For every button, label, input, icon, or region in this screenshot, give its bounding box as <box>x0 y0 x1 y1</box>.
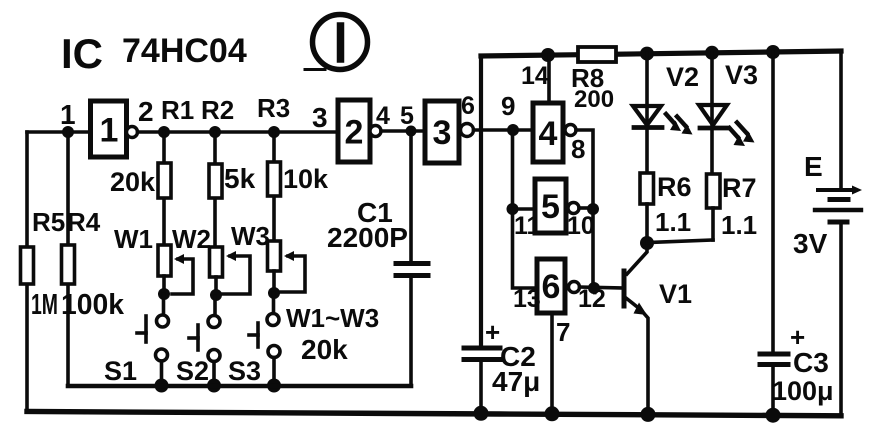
label pin 13 <box>513 285 541 313</box>
svg-text:2: 2 <box>345 114 364 152</box>
bubble output 4 <box>565 125 576 136</box>
resistor R3 body <box>268 132 281 241</box>
node pin1 <box>62 126 74 138</box>
wire bottom rail <box>27 412 841 416</box>
potentiometer W2 <box>210 247 251 294</box>
title IC 74HC04 <box>61 30 247 77</box>
switch S2 <box>189 296 220 386</box>
node base join <box>588 282 600 294</box>
label R7 value 1.1 <box>721 210 757 240</box>
label R3 <box>257 93 290 123</box>
inverter U1d box 4 <box>533 103 563 162</box>
bubble output 3 <box>461 124 474 137</box>
label pin 3 <box>312 102 328 133</box>
node C3 top <box>766 45 780 59</box>
resistor R7 <box>649 174 720 243</box>
svg-text:6: 6 <box>542 268 561 306</box>
svg-text:R1: R1 <box>161 95 194 125</box>
svg-text:S3: S3 <box>228 356 261 386</box>
figure mark (1) <box>305 15 368 70</box>
node V3 top <box>705 46 719 60</box>
node R1 <box>158 126 170 138</box>
node input5 <box>507 203 519 215</box>
node pin14 <box>541 48 555 62</box>
potentiometer W1 <box>158 245 193 294</box>
wire node to box5 input <box>513 207 536 211</box>
label pin 11 <box>514 212 541 240</box>
node 5 <box>406 126 417 137</box>
svg-text:100k: 100k <box>61 289 125 321</box>
label C2 plus <box>485 317 500 347</box>
label 200 <box>574 86 614 113</box>
label R4 <box>67 207 101 237</box>
label C3 plus <box>790 322 805 352</box>
node C2 bottom <box>474 406 489 421</box>
resistor R6 <box>640 173 654 243</box>
label 20k <box>110 167 156 197</box>
inverter U1a box 1 <box>91 101 127 157</box>
bubble output 5 <box>568 203 579 214</box>
svg-text:S2: S2 <box>176 356 209 386</box>
svg-text:1: 1 <box>60 99 76 130</box>
wire base <box>580 287 625 288</box>
inverter U1e box 5 <box>535 179 566 233</box>
node collector <box>640 236 654 250</box>
inverter U1b box 2 <box>338 100 370 162</box>
svg-text:2: 2 <box>138 96 154 127</box>
label pin 2 <box>138 96 154 127</box>
svg-text:R4: R4 <box>67 207 101 237</box>
label R5 <box>32 207 65 237</box>
label R1 <box>161 95 194 125</box>
svg-text:W1: W1 <box>114 224 153 254</box>
label W2 <box>172 224 211 254</box>
label pin 8 <box>571 134 585 164</box>
wire Vcc vertical / capacitor C2 branch <box>479 56 483 346</box>
label pin 10 <box>567 212 595 240</box>
label R7 <box>722 173 757 203</box>
wire inner bus <box>68 384 411 389</box>
label W3 <box>231 221 270 251</box>
label 100u <box>772 376 834 406</box>
svg-text:4: 4 <box>539 115 558 153</box>
node R2 <box>209 126 221 138</box>
node pin7 ground <box>545 406 560 421</box>
svg-text:47μ: 47μ <box>492 366 540 397</box>
label W1~W3 <box>286 303 379 333</box>
label pin 12 <box>578 285 606 313</box>
svg-text:9: 9 <box>501 91 515 121</box>
label 100k <box>61 289 125 321</box>
resistor R4 <box>62 132 75 386</box>
svg-text:200: 200 <box>574 86 614 113</box>
svg-text:8: 8 <box>571 134 585 164</box>
bubble output 1 <box>127 127 138 138</box>
label V2 <box>666 62 699 92</box>
label 5k <box>224 163 256 194</box>
svg-text:4: 4 <box>376 102 390 130</box>
label pin 5 <box>400 102 414 130</box>
svg-text:R3: R3 <box>257 93 290 123</box>
label E <box>804 151 823 182</box>
wire node45 down to base node <box>591 209 595 288</box>
label S1 <box>104 356 137 386</box>
svg-text:11: 11 <box>514 212 541 240</box>
svg-text:2200P: 2200P <box>327 222 408 253</box>
label V1 <box>659 279 692 309</box>
svg-text:1.1: 1.1 <box>655 207 691 237</box>
potentiometer W3 <box>268 241 306 292</box>
svg-text:1.1: 1.1 <box>721 210 757 240</box>
node W2 bottom <box>210 289 222 301</box>
svg-text:IC: IC <box>61 30 103 77</box>
LED V3 arrows <box>730 123 755 147</box>
label W1 <box>114 224 153 254</box>
inverter U1f box 6 <box>537 259 565 313</box>
svg-text:7: 7 <box>556 317 570 347</box>
label pin 14 <box>521 62 549 90</box>
svg-text:S1: S1 <box>104 356 137 386</box>
capacitor C2 <box>464 348 500 413</box>
wire output4 down <box>576 130 593 209</box>
svg-text:E: E <box>804 151 823 182</box>
svg-text:W1~W3: W1~W3 <box>286 303 379 333</box>
battery E <box>815 51 862 416</box>
label C1 <box>357 197 393 228</box>
label pin 1 <box>60 99 76 130</box>
node S1 bottom <box>155 379 169 393</box>
bubble output 6 <box>569 282 580 293</box>
svg-text:R6: R6 <box>657 172 692 202</box>
svg-text:R2: R2 <box>201 95 234 125</box>
svg-text:6: 6 <box>461 92 475 120</box>
resistor R5 <box>21 132 34 412</box>
svg-text:10: 10 <box>567 212 595 240</box>
svg-text:5k: 5k <box>224 163 256 194</box>
wire pin14 to box4 <box>547 55 551 103</box>
svg-text:14: 14 <box>521 62 549 90</box>
resistor R8 <box>578 47 616 62</box>
switch S3 <box>249 293 280 386</box>
svg-text:R5: R5 <box>32 207 65 237</box>
resistor R2 body <box>209 132 222 247</box>
svg-text:10k: 10k <box>283 164 329 194</box>
svg-text:W2: W2 <box>172 224 211 254</box>
node C3 bottom <box>766 408 781 423</box>
bubble output 2 <box>370 126 381 137</box>
resistor R1 body <box>158 132 171 245</box>
svg-text:5: 5 <box>541 188 560 226</box>
LED V3 <box>699 53 728 174</box>
svg-text:3: 3 <box>433 114 452 152</box>
svg-text:V1: V1 <box>659 279 692 309</box>
label R2 <box>201 95 234 125</box>
svg-text:20k: 20k <box>110 167 156 197</box>
svg-text:20k: 20k <box>301 334 348 365</box>
svg-text:74HC04: 74HC04 <box>122 32 247 70</box>
label 2200P <box>327 222 408 253</box>
svg-text:R7: R7 <box>722 173 757 203</box>
capacitor C1 <box>396 131 428 386</box>
node R3 <box>268 126 280 138</box>
label R6 <box>657 172 692 202</box>
node W1 bottom <box>158 288 170 300</box>
capacitor C3 <box>760 52 788 415</box>
node S3 bottom <box>267 379 281 393</box>
label V3 <box>725 60 758 90</box>
wire top rail <box>481 51 841 56</box>
label 1M <box>31 289 58 321</box>
node V2 top <box>640 47 654 61</box>
label 47u <box>492 366 540 397</box>
wire output1 to box2 <box>138 130 339 134</box>
label S3 <box>228 356 261 386</box>
wire bubble5 to node <box>579 206 590 210</box>
svg-text:W3: W3 <box>231 221 270 251</box>
wire input5 branch <box>513 130 538 288</box>
svg-text:+: + <box>485 317 500 347</box>
inverter U1c box 3 <box>425 101 459 163</box>
svg-text:C3: C3 <box>793 347 829 378</box>
node emitter ground <box>641 407 656 422</box>
LED V2 <box>633 54 662 173</box>
svg-text:1M: 1M <box>31 289 58 321</box>
switch S1 <box>137 294 169 386</box>
label pin 9 <box>501 91 515 121</box>
label pin 4 <box>376 102 390 130</box>
label pin 6 <box>461 92 475 120</box>
svg-text:3V: 3V <box>793 228 828 259</box>
svg-text:100μ: 100μ <box>772 376 834 406</box>
label pin 7 <box>556 317 570 347</box>
wire pin7 to ground <box>550 313 554 414</box>
label 20k pots <box>301 334 348 365</box>
label S2 <box>176 356 209 386</box>
svg-text:V3: V3 <box>725 60 758 90</box>
svg-text:13: 13 <box>513 285 541 313</box>
node out45 <box>587 203 599 215</box>
transistor V1 <box>624 245 648 414</box>
node S2 bottom <box>207 379 221 393</box>
node 9 <box>507 124 519 136</box>
label C2 <box>500 341 536 372</box>
label R6 value 1.1 <box>655 207 691 237</box>
svg-text:V2: V2 <box>666 62 699 92</box>
node W3 bottom <box>268 287 280 299</box>
svg-text:1: 1 <box>100 112 119 150</box>
LED V2 arrows <box>666 114 693 135</box>
wire bubble3 to box4 <box>474 128 534 132</box>
svg-text:3: 3 <box>312 102 328 133</box>
wire main signal left <box>27 130 92 134</box>
label 10k <box>283 164 329 194</box>
label C3 <box>793 347 829 378</box>
label 3V <box>793 228 828 259</box>
wire bubble2 to box3 <box>381 129 425 133</box>
label R8 <box>571 63 604 93</box>
